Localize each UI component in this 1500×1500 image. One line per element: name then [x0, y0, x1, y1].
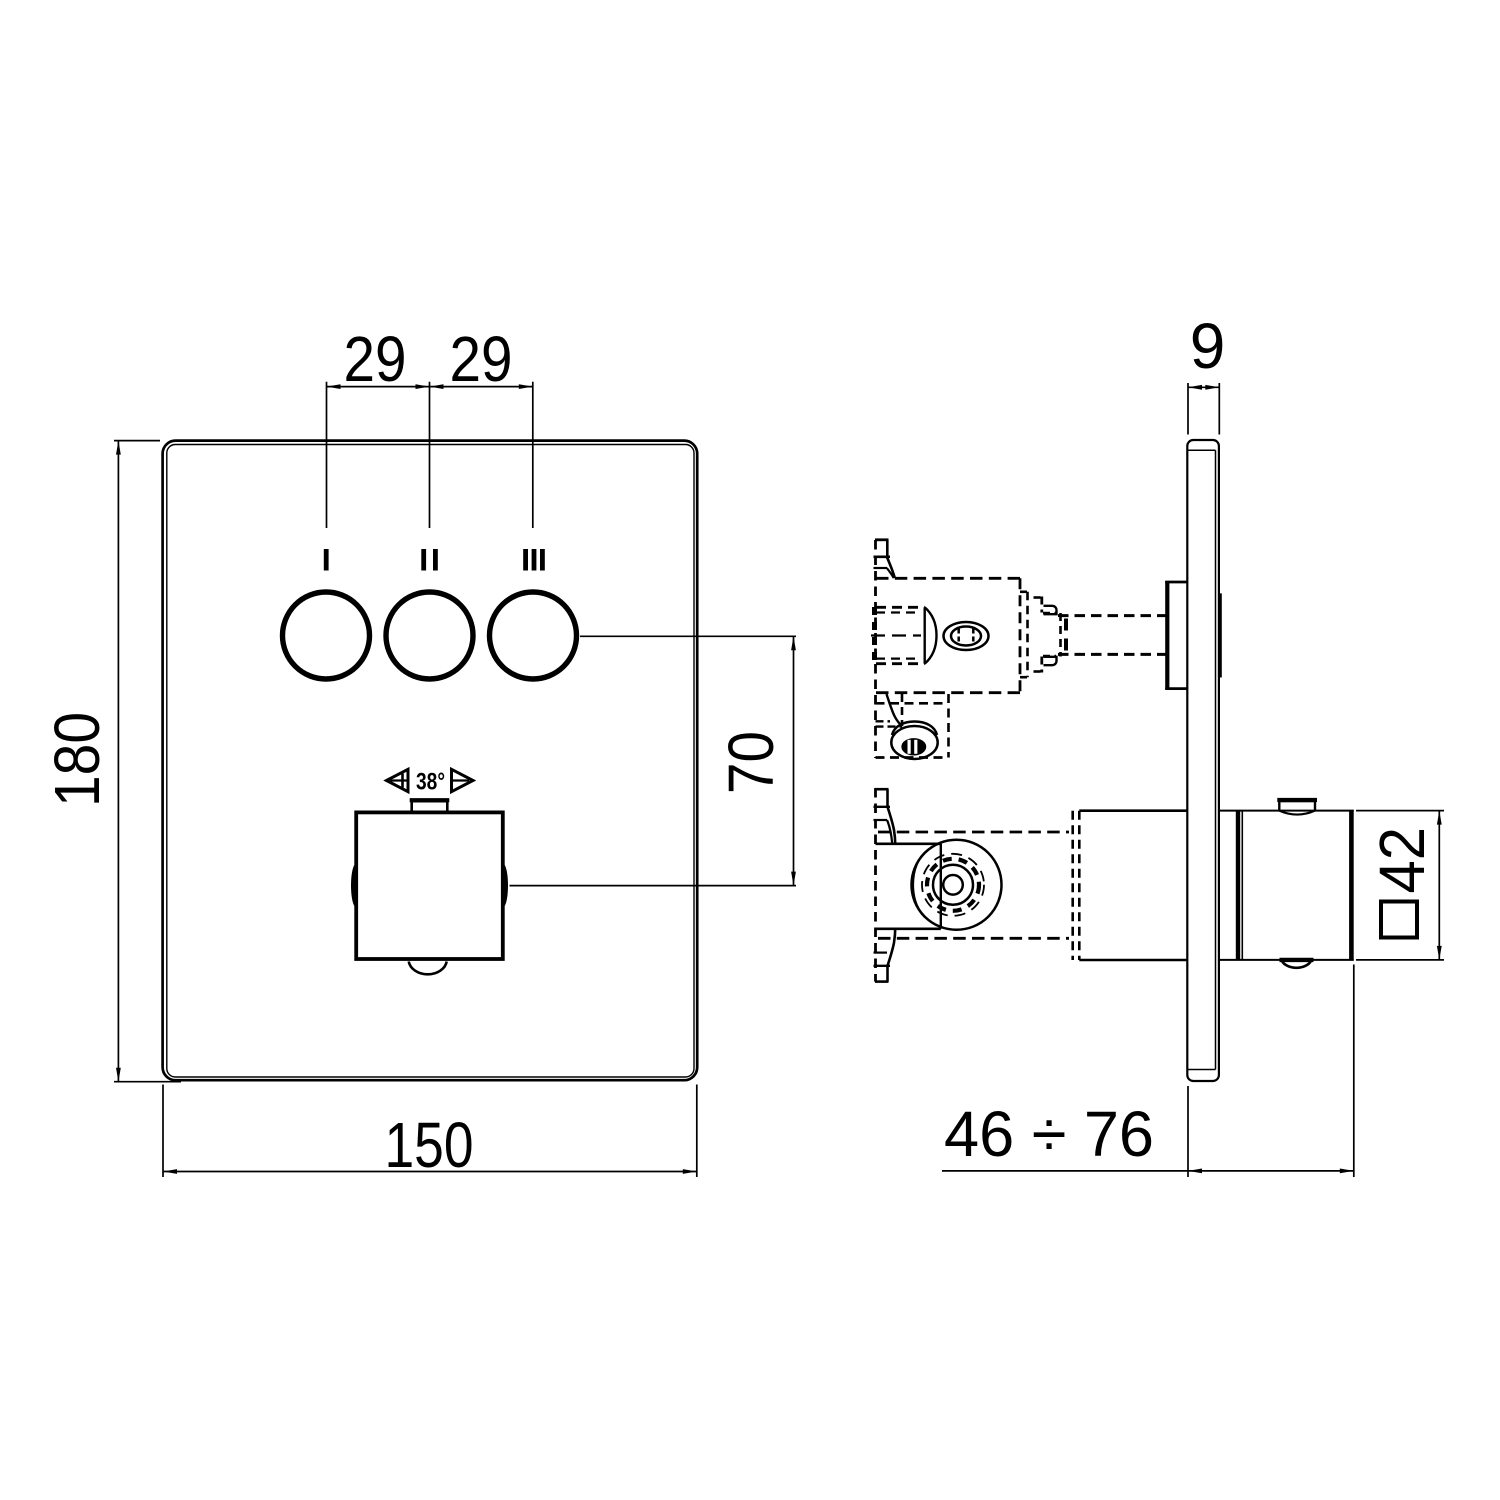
knob bottom bump: [409, 962, 447, 975]
flange top: [1165, 581, 1187, 584]
arrow 9 left: [1188, 385, 1202, 390]
flange left: [1165, 581, 1169, 689]
top tab: [875, 788, 889, 791]
tab right: [886, 540, 889, 558]
button B2: [386, 592, 473, 679]
knurl dashed thin: [922, 854, 984, 916]
plate S1 bottom inner line: [1187, 1069, 1215, 1071]
arrow 180 bottom: [116, 1068, 121, 1082]
cap bottom arc: [1279, 811, 1315, 815]
oval screw ticks: [957, 629, 960, 644]
tab tick: [874, 555, 891, 558]
cartridge dome arc: [925, 607, 937, 663]
plate F1 inner: [167, 445, 694, 1078]
dim 180 ext top: [114, 440, 160, 442]
ext right (handle): [1353, 965, 1355, 1178]
svg-text:38°: 38°: [416, 769, 445, 796]
leader button III: [580, 635, 796, 637]
arrow 150 right: [683, 1169, 697, 1174]
body right dashed: [1019, 578, 1022, 692]
cartridge right solid: [924, 607, 926, 663]
svg-text:29: 29: [344, 323, 407, 395]
knob K1: [356, 812, 503, 959]
cartridge bottom dashed double: [876, 662, 925, 665]
square glyph: [1381, 902, 1417, 938]
foot hook: [887, 694, 903, 726]
dim 70 line: [793, 636, 795, 885]
handle bottom edge: [1220, 959, 1354, 961]
knurl crescent: [913, 850, 928, 920]
shaft bottom dashed: [1058, 653, 1166, 656]
oval screw inner: [951, 627, 981, 646]
arrow 70 bottom: [791, 872, 796, 886]
dim 9 ext left: [1187, 383, 1189, 435]
handle top edge: [1220, 810, 1354, 812]
arrow 150 left: [163, 1169, 177, 1174]
dim 9 line: [1188, 386, 1219, 388]
tab flare 1: [887, 557, 895, 578]
boss box bottom: [1079, 959, 1187, 962]
svg-text:42: 42: [1366, 827, 1438, 894]
spine dashed: [874, 540, 877, 758]
arrow 70 top: [791, 636, 796, 650]
dim 150 ext left: [162, 1085, 164, 1178]
arrow 29 mid-left: [416, 384, 430, 389]
shaft top dashed: [1058, 614, 1166, 617]
handle left thin: [1241, 811, 1243, 960]
handle right thick: [1349, 811, 1354, 960]
ext top: [1356, 810, 1444, 812]
spine dashed: [874, 788, 877, 982]
body top dashed: [878, 831, 1069, 834]
knurl dashed thick: [927, 859, 979, 911]
tab flare 2: [887, 568, 894, 578]
bracket box right: [940, 844, 942, 929]
arrow 29 left-out: [327, 384, 341, 389]
handle left thick: [1236, 811, 1240, 960]
body bottom dashed: [878, 937, 1069, 940]
foot tick: [876, 720, 891, 722]
step cap top: [1044, 606, 1057, 614]
knurl outer circle: [912, 840, 1002, 930]
arrow bottom: [1437, 946, 1442, 960]
dim 29 ext II / centerline: [429, 382, 431, 528]
plate S1 outer: [1187, 440, 1219, 1081]
screw slot dark: [903, 739, 925, 754]
arrow right: [1340, 1169, 1354, 1174]
plate F1 outer: [163, 441, 698, 1081]
knob right bump: [501, 865, 508, 907]
plate S1 edge segment upper: [1220, 593, 1222, 677]
body top dashed: [876, 577, 1020, 580]
svg-text:70: 70: [715, 731, 787, 794]
ext bottom: [1356, 959, 1444, 961]
dim 180 line: [117, 441, 119, 1082]
button B3: [490, 592, 577, 679]
dim 29 ext III / centerline: [532, 382, 534, 528]
ext left (plate): [1187, 1086, 1189, 1177]
handle bottom bump: [1282, 960, 1312, 967]
dim line: [1438, 811, 1440, 960]
38 deg right triangle: [452, 769, 474, 791]
plate S1 inner vertical: [1215, 450, 1217, 1069]
svg-text:150: 150: [385, 1109, 474, 1181]
dim 29 ext I / centerline: [326, 382, 328, 528]
svg-text:9: 9: [1190, 310, 1226, 382]
plate S1 top inner line: [1187, 449, 1215, 451]
screw head washer arc: [892, 722, 937, 736]
knob tab: [412, 801, 448, 811]
dim 180 ext bottom: [114, 1081, 181, 1083]
numeral III: [523, 549, 528, 571]
tab top: [875, 538, 889, 541]
step cap bottom: [1044, 657, 1057, 665]
leader knob: [510, 885, 797, 887]
dim 150 line: [163, 1171, 697, 1173]
bottom flare: [888, 929, 896, 966]
arrow 9 right: [1205, 385, 1219, 390]
top flare: [888, 807, 896, 844]
arrow 180 top: [116, 441, 121, 455]
screw head outer: [891, 726, 937, 759]
oval screw outer: [944, 622, 989, 650]
svg-text:180: 180: [41, 712, 113, 807]
knurl inner solid: [933, 865, 973, 905]
arrow top: [1437, 811, 1442, 825]
knob left bump: [351, 865, 358, 907]
numeral I: [324, 549, 329, 571]
boss box top: [1079, 809, 1187, 812]
svg-text:46 ÷ 76: 46 ÷ 76: [944, 1098, 1154, 1170]
cartridge left serration: [872, 607, 877, 664]
bottom tab: [874, 965, 891, 967]
neck dashed verticals: [1071, 811, 1074, 960]
foot box dashed: [876, 702, 949, 705]
button B1: [283, 592, 370, 679]
flange bottom: [1165, 687, 1187, 690]
arrow left: [1188, 1169, 1202, 1174]
arrow 29 mid-right: [430, 384, 444, 389]
dim 9 ext right: [1218, 383, 1220, 435]
numeral II: [421, 549, 426, 571]
steps dashed: [1020, 590, 1031, 593]
dim 29 line: [327, 386, 533, 388]
bracket box top: [876, 842, 941, 845]
arrow 29 right-out: [519, 384, 533, 389]
handle cap: [1279, 801, 1315, 811]
bracket box bottom: [876, 927, 941, 930]
body bottom dashed: [876, 691, 1020, 694]
38 deg left triangle: [387, 769, 409, 791]
cartridge top dashed double: [876, 606, 925, 609]
dim 150 ext right: [696, 1085, 698, 1178]
svg-text:29: 29: [450, 323, 513, 395]
tab tick2: [874, 567, 888, 569]
cartridge centerline dashed: [871, 634, 921, 636]
shaft neck dashes: [1059, 613, 1062, 657]
dim line: [942, 1170, 1354, 1172]
knurl hub: [943, 875, 963, 895]
